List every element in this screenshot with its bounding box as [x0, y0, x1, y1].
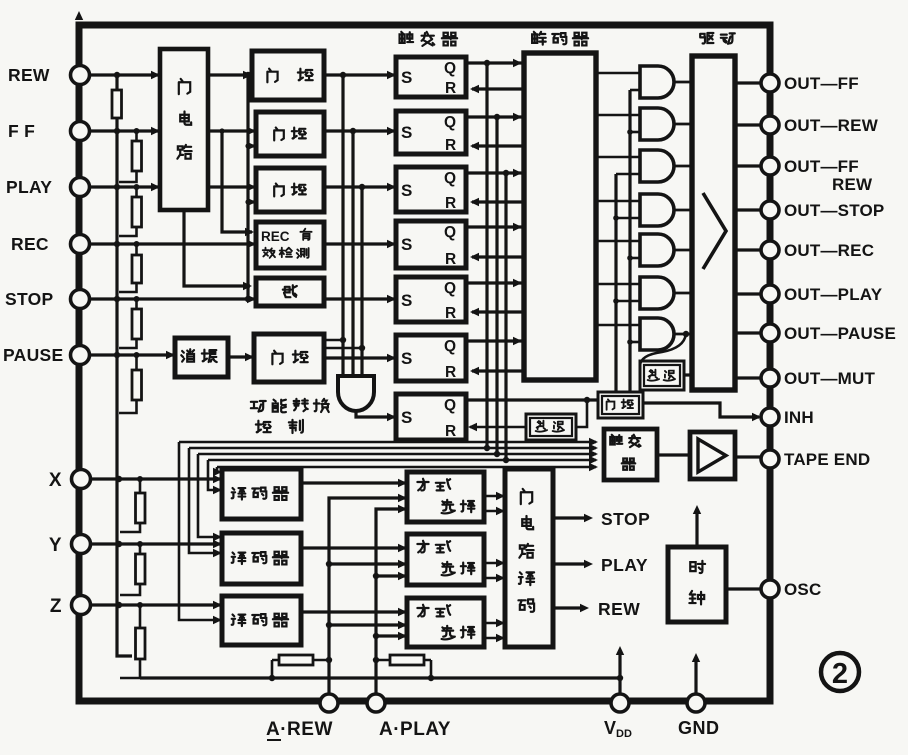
flip-flop U4 S-R latch	[396, 221, 466, 268]
junction rail	[116, 541, 122, 547]
junction rail	[116, 476, 122, 482]
svg-text:OSC: OSC	[784, 580, 821, 599]
svg-text:OUT—STOP: OUT—STOP	[784, 201, 884, 220]
outer border frame wire	[79, 25, 770, 701]
wire mode-select2 out	[484, 577, 503, 580]
resistor R1	[112, 90, 122, 118]
wire G7 hook to delay1	[640, 334, 686, 375]
svg-text:REW: REW	[832, 175, 873, 194]
wire X input	[91, 477, 220, 480]
svg-text:PLAY: PLAY	[601, 555, 648, 575]
terminal REW input	[71, 66, 90, 85]
wire A-PLAY net	[376, 509, 405, 694]
wire branch to REC-detect upper	[222, 131, 252, 232]
wire branch to gate-ctl3 lower	[248, 200, 254, 203]
flip-flop U7 S-R latch	[396, 394, 466, 440]
wire R feedback to FF6	[472, 369, 524, 372]
wire GND arrow	[694, 657, 697, 694]
wire A-REW to mode2	[329, 562, 405, 565]
junction rail	[114, 352, 120, 358]
wire driver output	[735, 208, 761, 211]
and-gate G6	[640, 277, 674, 309]
block decoder3 译码器	[222, 596, 301, 645]
block gate-ctl2 门控	[256, 112, 324, 156]
terminal Z input	[72, 596, 91, 615]
wire driver output	[735, 164, 761, 167]
wire gate-circuit to gate-ctl2	[208, 129, 254, 132]
wire gate-ctl2 out to FF2 S	[324, 129, 394, 132]
terminal FF input	[71, 122, 90, 141]
terminal A-PLAY	[367, 694, 385, 712]
and-gate G7	[640, 318, 674, 350]
wire gate lower input stub	[616, 300, 640, 303]
wire OR out to FF5 S	[324, 297, 394, 300]
terminal Y input	[72, 535, 91, 554]
wire gate-ctl4 out to FF6 S	[324, 356, 394, 359]
svg-text:S: S	[401, 68, 412, 87]
wire bias rail vertical	[117, 75, 132, 656]
wire clock top arrow	[695, 509, 698, 547]
svg-text:GND: GND	[678, 718, 720, 738]
wire branch to gate-ctl2 lower	[248, 144, 254, 147]
block delay2 延迟	[526, 414, 576, 440]
svg-text:S: S	[401, 408, 412, 427]
label control 控制	[256, 421, 271, 433]
junction rail	[114, 184, 120, 190]
wire gate-ctl4 upper branch B	[324, 347, 362, 350]
terminal OUT-REC output	[761, 241, 779, 259]
junction R6 top	[134, 352, 140, 358]
terminal OSC output	[761, 580, 779, 598]
terminal X input	[72, 470, 91, 489]
svg-text:OUT—PLAY: OUT—PLAY	[784, 285, 883, 304]
junction bus F2	[494, 451, 500, 457]
svg-text:A·PLAY: A·PLAY	[379, 719, 451, 740]
resistor R7	[120, 479, 140, 532]
wire gate-circuit to gate-ctl1	[208, 73, 250, 76]
wire G8 output to FF7	[356, 410, 394, 417]
wire tap vertical A	[341, 75, 344, 376]
wire PLAY output arrow	[553, 562, 584, 565]
wire FF4 Q to decoder	[466, 225, 522, 228]
wire decoder to G2 upper	[596, 114, 640, 117]
flip-flop U5 S-R latch	[396, 277, 466, 322]
wire gate lower input stub	[630, 341, 640, 344]
terminal OUT-PAUSE output	[761, 324, 779, 342]
wire R feedback to FF2	[472, 144, 524, 147]
svg-text:STOP: STOP	[5, 289, 54, 309]
block mode-select2 方式选择	[407, 534, 484, 585]
wire gate feed vertical x616	[614, 174, 617, 392]
block mode-select1 方式选择	[407, 472, 484, 522]
svg-text:2: 2	[832, 658, 848, 690]
svg-text:R: R	[445, 364, 456, 381]
wire mode-select1 out	[484, 495, 503, 498]
figure number 2 badge	[821, 653, 859, 691]
wire delay2 to FF7 R	[470, 426, 526, 429]
resistor R9	[120, 605, 140, 678]
wire driver output	[735, 123, 761, 126]
terminal OUT-FF output	[761, 74, 779, 92]
wire trigger to buffer	[657, 453, 690, 456]
wire gate lower input stub	[616, 217, 640, 220]
junction rail	[114, 241, 120, 247]
wire supply bus	[140, 676, 620, 679]
wire FF1 Q to decoder	[466, 61, 522, 64]
svg-text:Q: Q	[444, 170, 456, 187]
wire loop vertical x217	[217, 467, 220, 472]
resistor R6	[119, 355, 137, 413]
wire G5 output	[674, 249, 692, 252]
wire FF6 Q to decoder	[466, 339, 522, 342]
wire decoder to G6 upper	[596, 283, 640, 286]
wire A-PLAY to mode2	[376, 574, 405, 577]
wire REW input	[90, 73, 158, 76]
wire bus line1	[179, 441, 596, 444]
wire REC input	[90, 242, 254, 245]
svg-text:R: R	[445, 305, 456, 322]
and-gate function-change G8	[338, 376, 374, 411]
svg-text:Q: Q	[444, 60, 456, 77]
svg-text:Q: Q	[444, 224, 456, 241]
block mode-select3 方式选择	[407, 598, 484, 647]
wire feedback vertical F1	[485, 63, 488, 448]
svg-text:Q: Q	[444, 338, 456, 355]
wire gate-ctl1 out to FF1 S	[324, 73, 394, 76]
block OR 或	[256, 278, 324, 306]
wire decoder to G5 upper	[596, 240, 640, 243]
junction R9 top	[137, 602, 143, 608]
svg-text:Q: Q	[444, 280, 456, 297]
svg-text:TAPE END: TAPE END	[784, 450, 870, 469]
terminal INH output	[761, 408, 779, 426]
wire tap vertical B	[351, 131, 354, 376]
svg-text:OUT—FF: OUT—FF	[784, 74, 859, 93]
svg-text:Q: Q	[444, 114, 456, 131]
junction R5 top	[134, 296, 140, 302]
svg-text:F F: F F	[8, 121, 35, 141]
wire feedback vertical F3	[504, 173, 507, 460]
wire decoder2 to mode-select2	[301, 546, 405, 549]
resistor R2	[119, 131, 137, 182]
svg-text:PLAY: PLAY	[6, 177, 52, 197]
wire REC-detect out to FF4 S	[324, 242, 394, 245]
buffer amplifier U5	[690, 432, 735, 479]
wire FF5 Q to decoder	[466, 281, 522, 284]
wire driver output	[735, 376, 761, 379]
svg-text:R: R	[445, 195, 456, 212]
svg-text:STOP: STOP	[601, 509, 650, 529]
wire branch vertical x248	[246, 75, 249, 299]
label function-change control 功能转换	[251, 401, 266, 412]
wire feedback vertical F2	[495, 117, 498, 454]
wire gate-circuit bottom to OR	[184, 210, 250, 286]
and-gate G4	[640, 194, 674, 226]
svg-text:REW: REW	[598, 599, 640, 619]
wire driver output	[735, 331, 761, 334]
block gate-ctl3 门控	[256, 168, 324, 212]
svg-text:OUT—REW: OUT—REW	[784, 116, 879, 135]
and-gate G1	[640, 66, 674, 98]
junction R2 top	[134, 128, 140, 134]
svg-text:S: S	[401, 123, 412, 142]
terminal OUT-MUT output	[761, 369, 779, 387]
svg-text:A·REW: A·REW	[266, 719, 333, 740]
resistor R8	[120, 544, 140, 595]
block decoder2 译码器	[222, 533, 301, 584]
svg-text:OUT—FF: OUT—FF	[784, 157, 859, 176]
wire loop vertical x208	[208, 460, 220, 490]
wire decoder1 to mode-select1	[301, 481, 405, 484]
svg-text:R: R	[445, 423, 456, 440]
junction bus F3	[503, 457, 509, 463]
junction R3 top	[134, 184, 140, 190]
wire G6 output	[674, 292, 692, 295]
wire bus line5	[217, 466, 596, 469]
wire tap vertical C	[360, 187, 363, 376]
wire decoder to G1 upper	[596, 72, 640, 75]
wire STOP input	[90, 297, 254, 300]
arrow up at top-left corner	[75, 11, 83, 20]
wire decoder to G3 upper	[596, 156, 640, 159]
label flip-flops 触发器	[400, 32, 414, 43]
wire clock to OSC	[726, 587, 761, 590]
wire gate-ctl5 to INH terminal	[643, 403, 759, 417]
block driver 驱动 U3	[692, 56, 735, 390]
wire gate feed vertical x630	[628, 90, 631, 392]
terminal OUT-FF output	[761, 157, 779, 175]
wire mode-select1 out	[484, 510, 503, 513]
svg-text:X: X	[49, 470, 62, 491]
wire decoder to G4 upper	[596, 200, 640, 203]
junction rail	[116, 602, 122, 608]
flip-flop U3 S-R latch	[396, 167, 466, 212]
svg-text:R: R	[445, 80, 456, 97]
flip-flop U2 S-R latch	[396, 111, 466, 154]
wire STOP output arrow	[553, 516, 584, 519]
wire Y input	[91, 542, 220, 545]
label driver 驱动	[700, 33, 713, 43]
resistor R11 horizontal	[376, 660, 431, 678]
wire VDD arrow	[618, 650, 621, 694]
svg-text:REC: REC	[11, 234, 49, 254]
svg-text:INH: INH	[784, 408, 814, 427]
svg-text:R: R	[445, 251, 456, 268]
svg-text:OUT—PAUSE: OUT—PAUSE	[784, 324, 896, 343]
resistor R10 horizontal	[272, 660, 329, 678]
wire G3 output	[674, 165, 692, 168]
wire A-REW to mode3	[329, 623, 405, 626]
block gate-circuit 门电路 U1	[160, 49, 208, 210]
wire R feedback to FF3	[472, 200, 524, 203]
block REC-valid-detect	[256, 222, 324, 268]
and-gate G3	[640, 150, 674, 182]
block clock 时钟 U7	[668, 547, 726, 622]
wire G1 output	[674, 81, 692, 84]
wire delay1 to driver	[684, 373, 692, 376]
svg-text:Y: Y	[49, 535, 62, 556]
wire gate lower input stub	[616, 173, 640, 176]
wire bus line4	[208, 459, 596, 462]
svg-text:REC: REC	[261, 229, 290, 244]
wire driver output	[735, 81, 761, 84]
block decoder1 译码器	[222, 469, 301, 519]
wire loop vertical x189	[189, 448, 220, 553]
terminal OUT-STOP output	[761, 201, 779, 219]
flip-flop U6 S-R latch	[396, 335, 466, 381]
wire mode-select2 out	[484, 562, 503, 565]
wire bus line2	[189, 447, 596, 450]
wire REW output arrow	[553, 606, 580, 609]
svg-text:Z: Z	[50, 596, 62, 617]
label decoder 解码器	[532, 32, 546, 45]
wire G7 output	[674, 333, 692, 336]
wire FF input	[90, 129, 158, 132]
svg-text:S: S	[401, 349, 412, 368]
wire PAUSE input	[90, 353, 173, 356]
svg-text:R: R	[445, 137, 456, 154]
wire R feedback to FF1	[472, 87, 524, 90]
resistor R4	[119, 244, 137, 292]
wire R feedback to FF4	[472, 255, 524, 258]
wire A-REW net	[329, 498, 405, 694]
block decoder 解码器 U2	[524, 53, 596, 380]
wire gate-circuit to gate-ctl3	[208, 185, 254, 188]
resistor R5	[119, 299, 137, 348]
wire FF3 Q to decoder	[466, 171, 522, 174]
block delay1 延迟	[640, 361, 684, 390]
wire mode-select3 out	[484, 637, 503, 640]
wire G4 output	[674, 209, 692, 212]
terminal OUT-PLAY output	[761, 285, 779, 303]
wire PLAY input	[90, 185, 158, 188]
block gate-ctl5 门控 INH	[598, 392, 643, 418]
block gate-ctl4 门控	[254, 334, 324, 382]
wire driver output	[735, 248, 761, 251]
block debounce 消振	[175, 338, 228, 377]
wire debounce to gate-ctl4	[228, 355, 252, 358]
wire gate lower input stub	[630, 257, 640, 260]
wire buffer to TAPE END	[735, 455, 761, 458]
terminal TAPE END output	[761, 450, 779, 468]
terminal GND	[687, 694, 705, 712]
wire bus line3	[198, 453, 596, 456]
wire Z input	[91, 603, 220, 606]
junction bus F1	[484, 445, 490, 451]
svg-text:S: S	[401, 291, 412, 310]
and-gate G2	[640, 108, 674, 140]
svg-text:S: S	[401, 181, 412, 200]
wire loop vertical x179	[179, 442, 220, 620]
junction rail	[114, 128, 120, 134]
junction R4 top	[134, 241, 140, 247]
wire driver output	[735, 292, 761, 295]
block gate-circuit-decode 门电路译码 U6	[505, 469, 553, 647]
wire gate lower input stub	[630, 131, 640, 134]
svg-text:PAUSE: PAUSE	[3, 345, 64, 365]
svg-text:OUT—MUT: OUT—MUT	[784, 369, 876, 388]
terminal A-REW	[320, 694, 338, 712]
svg-text:OUT—REC: OUT—REC	[784, 241, 874, 260]
terminal REC input	[71, 235, 90, 254]
terminal STOP input	[71, 290, 90, 309]
wire gate-ctl3 out to FF3 S	[324, 185, 394, 188]
block trigger 触发器 U4	[604, 429, 657, 480]
wire decoder3 to mode-select3	[301, 610, 405, 613]
terminal OUT-REW output	[761, 116, 779, 134]
and-gate G5	[640, 234, 674, 266]
svg-text:Q: Q	[444, 397, 456, 414]
junction R8 top	[137, 541, 143, 547]
resistor R3	[119, 187, 137, 236]
wire decoder to G7 upper	[596, 324, 640, 327]
svg-text:REW: REW	[8, 65, 50, 85]
svg-text:S: S	[401, 235, 412, 254]
junction rail	[114, 296, 120, 302]
flip-flop U1 S-R latch	[396, 57, 466, 97]
junction R7 top	[137, 476, 143, 482]
wire FF2 Q to decoder	[466, 115, 522, 118]
wire R feedback to FF5	[472, 310, 524, 313]
wire FF7 Q to INH gate-ctl	[466, 398, 598, 401]
wire FF7 Q branch to delay2	[576, 400, 587, 427]
wire G2 output	[674, 123, 692, 126]
wire mode-select3 out	[484, 622, 503, 625]
terminal VDD	[611, 694, 629, 712]
wire loop vertical x198	[198, 454, 220, 537]
terminal PLAY input	[71, 178, 90, 197]
wire gate-ctl4 upper branch A	[324, 339, 343, 342]
block gate-ctl1 门控	[252, 51, 324, 100]
terminal PAUSE input	[71, 346, 90, 365]
wire A-PLAY to mode3	[376, 634, 405, 637]
wire gate lower input stub	[630, 89, 640, 92]
